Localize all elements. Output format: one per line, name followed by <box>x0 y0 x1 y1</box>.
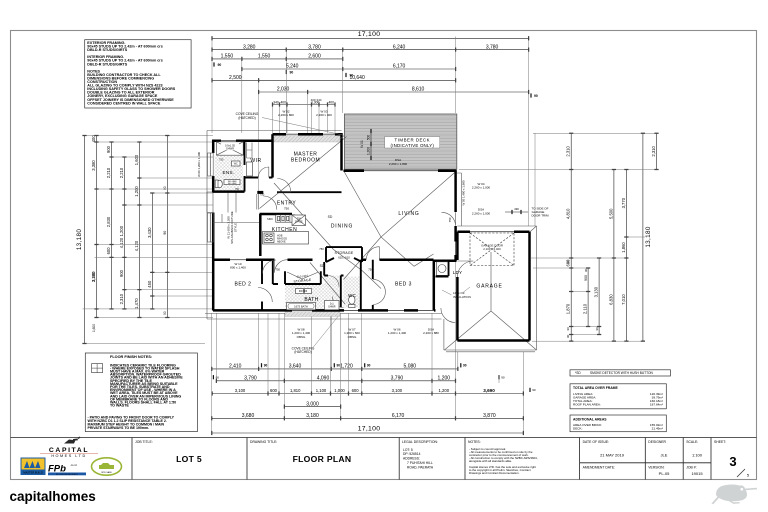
svg-text:750: 750 <box>219 157 224 161</box>
svg-text:3,380: 3,380 <box>91 160 96 171</box>
svg-text:1,000: 1,000 <box>334 388 345 393</box>
svg-text:TO WASTE: TO WASTE <box>110 404 129 408</box>
svg-text:5,500: 5,500 <box>608 208 613 219</box>
dimension row top6 <box>258 87 529 94</box>
svg-text:600 500: 600 500 <box>299 291 308 293</box>
svg-text:400 340: 400 340 <box>311 98 322 102</box>
svg-text:(INDICATIVE ONLY): (INDICATIVE ONLY) <box>391 143 435 148</box>
svg-text:3,790: 3,790 <box>391 376 404 382</box>
framing notes text <box>87 41 175 105</box>
svg-text:13,180: 13,180 <box>645 226 652 247</box>
svg-text:8,610: 8,610 <box>412 87 425 93</box>
svg-text:3,100: 3,100 <box>392 388 403 393</box>
svg-text:400: 400 <box>328 100 334 104</box>
svg-text:90: 90 <box>566 327 570 331</box>
svg-text:600: 600 <box>106 247 111 255</box>
door arc bed2 <box>263 260 277 274</box>
svg-text:PL-05: PL-05 <box>659 471 670 476</box>
svg-text:400: 400 <box>91 135 96 143</box>
wall living top (deck sliders) <box>344 169 457 172</box>
overall left dimension 13,180 <box>76 135 87 344</box>
490 to side of garage door trim <box>505 210 528 214</box>
svg-text:3,780: 3,780 <box>486 44 499 50</box>
exterior wall: master bedroom top (windows W02 W03) <box>273 133 343 136</box>
svg-text:LEGAL DESCRIPTION:: LEGAL DESCRIPTION: <box>402 440 438 444</box>
svg-text:FLOOR FINISH NOTES:: FLOOR FINISH NOTES: <box>110 355 152 359</box>
deck small vertical dim <box>366 129 371 160</box>
wall ens/wir divider <box>244 141 246 192</box>
svg-text:BEDROOM: BEDROOM <box>291 157 320 163</box>
svg-text:2,260 x 880: 2,260 x 880 <box>423 331 439 335</box>
svg-text:DECK:: DECK: <box>573 427 583 431</box>
svg-text:DRAWING TITLE:: DRAWING TITLE: <box>250 440 277 444</box>
svg-text:FLOOR PRIDE BUILD: FLOOR PRIDE BUILD <box>56 474 78 476</box>
svg-text:900: 900 <box>584 275 588 281</box>
svg-text:6,830: 6,830 <box>608 294 613 305</box>
svg-text:3,790: 3,790 <box>244 376 257 382</box>
svg-text:900: 900 <box>119 269 124 277</box>
garage roof lines <box>444 226 536 350</box>
svg-text:600: 600 <box>270 388 278 393</box>
svg-text:NOTES:: NOTES: <box>468 440 481 444</box>
svg-text:DBLD-R STUDS/GIRTS: DBLD-R STUDS/GIRTS <box>87 62 127 66</box>
svg-text:1675 BATH: 1675 BATH <box>294 305 308 309</box>
wall wir bottom <box>245 177 273 179</box>
svg-text:ROOF PLAN AREA:: ROOF PLAN AREA: <box>573 402 601 406</box>
svg-text:DBLD-R STUDS/GIRTS: DBLD-R STUDS/GIRTS <box>87 48 127 52</box>
title block frame <box>11 437 757 439</box>
roof hip and valley lines <box>260 137 458 305</box>
svg-text:3,640: 3,640 <box>289 364 302 370</box>
svg-text:BED 3: BED 3 <box>395 281 412 287</box>
svg-text:2,310: 2,310 <box>119 293 124 304</box>
svg-text:5,080: 5,080 <box>404 364 417 370</box>
svg-text:1,600: 1,600 <box>134 154 139 165</box>
svg-text:FLOOR PLAN: FLOOR PLAN <box>293 454 352 464</box>
svg-text:90: 90 <box>501 376 505 380</box>
svg-text:5,240: 5,240 <box>286 64 299 70</box>
svg-text:21 MAY 2019: 21 MAY 2019 <box>600 452 625 457</box>
dimension column left3 <box>106 141 114 309</box>
svg-text:ROAD, PAERATA: ROAD, PAERATA <box>407 465 434 469</box>
svg-text:90: 90 <box>290 71 294 75</box>
door arc bed2 east wall <box>258 288 272 303</box>
svg-text:1,100: 1,100 <box>316 388 327 393</box>
svg-text:*SD: *SD <box>575 371 581 375</box>
kitchen island bench <box>263 232 309 245</box>
svg-text:4,090: 4,090 <box>317 376 330 382</box>
svg-text:SPACE: SPACE <box>295 220 303 223</box>
svg-text:2,260 x 1,000: 2,260 x 1,000 <box>472 211 491 215</box>
wall living east <box>454 171 457 261</box>
svg-text:(HATCHED): (HATCHED) <box>294 350 311 354</box>
wall bed3 west <box>372 260 374 311</box>
dimension row top3 <box>211 54 343 61</box>
svg-text:LDY: LDY <box>453 270 463 275</box>
dimension row bot4 <box>284 401 341 408</box>
door arc wardrobe bed3 <box>373 279 386 304</box>
svg-text:90: 90 <box>566 334 570 338</box>
svg-text:3,870: 3,870 <box>483 413 496 419</box>
dimension column left4 <box>119 156 127 309</box>
svg-text:DESIGNER: DESIGNER <box>648 440 666 444</box>
svg-text:90: 90 <box>337 364 341 368</box>
svg-text:BED 2: BED 2 <box>235 281 252 287</box>
svg-text:LIVING: LIVING <box>398 211 419 217</box>
ens shower <box>216 142 243 155</box>
svg-text:capitalhomes: capitalhomes <box>10 489 96 504</box>
wall bath/wc area <box>324 260 361 311</box>
svg-text:17,100: 17,100 <box>358 426 381 433</box>
svg-text:90: 90 <box>163 231 167 235</box>
overall top dimension 17,100 <box>211 31 529 41</box>
svg-text:WC: WC <box>348 293 357 298</box>
dimension row top4 <box>241 64 456 71</box>
svg-text:SD: SD <box>328 215 333 219</box>
svg-text:.co.nz: .co.nz <box>70 464 78 467</box>
svg-text:750: 750 <box>448 217 452 222</box>
cove ceiling hatch master bedroom <box>274 136 340 143</box>
svg-text:3,180: 3,180 <box>306 413 319 419</box>
svg-text:750: 750 <box>284 207 289 211</box>
svg-text:1,470: 1,470 <box>134 298 139 309</box>
svg-text:4,810: 4,810 <box>566 208 571 219</box>
svg-text:WIR: WIR <box>250 158 261 164</box>
svg-text:21.49m²: 21.49m² <box>652 427 663 431</box>
svg-text:OBSG: OBSG <box>297 335 306 339</box>
overall bottom dimension 17,100 <box>211 426 524 436</box>
svg-text:1,870: 1,870 <box>566 303 571 314</box>
svg-text:3,690: 3,690 <box>483 388 495 393</box>
svg-text:90: 90 <box>534 94 538 98</box>
ens label boxes <box>224 180 240 185</box>
svg-text:WC: WC <box>234 163 238 166</box>
svg-text:500: 500 <box>366 135 370 141</box>
wing top wall (bed2/hall) <box>213 258 313 261</box>
svg-text:SITE SAFE: SITE SAFE <box>101 471 112 474</box>
svg-text:2,100 x 2,400: 2,100 x 2,400 <box>483 247 501 251</box>
svg-text:DOOR TRIM: DOOR TRIM <box>531 214 549 218</box>
svg-text:GARAGE: GARAGE <box>476 284 502 290</box>
svg-text:610 | 610: 610 | 610 <box>338 256 350 260</box>
svg-text:Drawings and Contract Document: Drawings and Contract Documentation. <box>469 471 520 475</box>
svg-text:alongside with all standards a: alongside with all standards alike. <box>469 459 512 463</box>
exterior wall: wing bottom (windows W08 W07 W06 DSA) <box>213 309 436 312</box>
timber deck label <box>385 137 440 148</box>
svg-text:90: 90 <box>595 327 599 331</box>
dimension column right5 <box>621 169 629 342</box>
exterior wall: west (left) <box>212 140 215 311</box>
svg-text:2,210: 2,210 <box>119 167 124 178</box>
door arc ldy exterior <box>441 308 456 323</box>
svg-text:ABOVE: ABOVE <box>277 241 286 244</box>
svg-text:1,300: 1,300 <box>366 147 370 155</box>
framing notes box <box>85 40 191 108</box>
dimension row top2 <box>211 44 529 51</box>
svg-text:DP: 526514: DP: 526514 <box>403 452 421 456</box>
svg-text:6,240: 6,240 <box>393 44 406 50</box>
svg-text:187.64m²: 187.64m² <box>650 402 663 406</box>
svg-text:SD: SD <box>320 264 325 268</box>
svg-text:17,100: 17,100 <box>358 31 381 38</box>
door arc master <box>277 179 291 193</box>
svg-text:90: 90 <box>532 388 536 392</box>
svg-text:3,180: 3,180 <box>91 271 96 282</box>
svg-text:900 VAN: 900 VAN <box>228 182 237 185</box>
svg-text:90: 90 <box>367 364 371 368</box>
svg-text:DINING: DINING <box>331 224 353 230</box>
fpb logo <box>48 464 86 476</box>
svg-text:1,200 x 1,400: 1,200 x 1,400 <box>388 331 407 335</box>
svg-text:1,600: 1,600 <box>92 324 96 332</box>
wall bed2 east <box>261 260 263 311</box>
svg-text:DATE OF ISSUE:: DATE OF ISSUE: <box>583 440 610 444</box>
svg-text:400: 400 <box>280 100 286 104</box>
wc toilet <box>349 296 355 304</box>
svg-text:800 x 1,400: 800 x 1,400 <box>230 265 246 269</box>
entry door frame <box>257 194 259 210</box>
svg-text:SHWR: SHWR <box>226 147 234 151</box>
svg-text:W 09 1,200 x 1,400: W 09 1,200 x 1,400 <box>197 152 201 177</box>
svg-text:CONSIDERED CENTRED IN WALL SPA: CONSIDERED CENTRED IN WALL SPACE <box>87 101 161 105</box>
svg-text:AMENDMENT DATE:: AMENDMENT DATE: <box>583 465 616 469</box>
kiwi bird silhouette <box>712 485 758 505</box>
dimension row top5 <box>211 75 456 82</box>
dimension column left2 <box>91 135 99 318</box>
svg-text:MASTER BUILD: MASTER BUILD <box>23 470 42 474</box>
svg-text:3,100: 3,100 <box>235 388 246 393</box>
svg-text:3,130: 3,130 <box>594 286 599 297</box>
svg-text:2,210: 2,210 <box>106 167 111 178</box>
svg-text:340: 340 <box>273 100 279 104</box>
svg-text:STORAGE: STORAGE <box>335 251 354 255</box>
svg-text:W 01: W 01 <box>360 140 364 148</box>
svg-text:JOB #:: JOB #: <box>686 465 696 469</box>
svg-text:LOT 5: LOT 5 <box>176 454 202 464</box>
svg-text:900: 900 <box>106 145 111 153</box>
dimension column right6 <box>651 133 659 170</box>
svg-text:SHEET:: SHEET: <box>714 440 726 444</box>
svg-text:90: 90 <box>566 260 570 264</box>
capital homes logo <box>40 437 98 458</box>
svg-text:ADDRESS:: ADDRESS: <box>403 457 420 461</box>
svg-text:BATH: BATH <box>304 297 318 303</box>
door arc hall-bath <box>328 276 344 308</box>
door arc entry <box>264 196 277 210</box>
wir shelves <box>247 143 253 159</box>
small 90 offsets top <box>213 62 353 77</box>
dimension column left5 <box>134 141 142 318</box>
dimension column left7 <box>163 135 170 318</box>
svg-text:750: 750 <box>235 188 240 191</box>
svg-text:SCALE:: SCALE: <box>686 440 698 444</box>
svg-text:SINK: SINK <box>267 217 273 221</box>
party wall house/garage <box>433 260 436 311</box>
svg-text:750: 750 <box>276 268 281 272</box>
svg-text:KITCHEN: KITCHEN <box>272 227 297 233</box>
eaves outline main house <box>205 131 537 352</box>
svg-text:2,260 x 1,800: 2,260 x 1,800 <box>389 162 408 166</box>
svg-text:ENS.: ENS. <box>223 170 235 175</box>
total area over frame box <box>570 384 666 409</box>
svg-text:750: 750 <box>260 193 265 197</box>
svg-text:2,260 x 1,000: 2,260 x 1,000 <box>472 186 491 190</box>
left witness lines <box>83 136 214 344</box>
kitchen tall unit <box>292 215 306 226</box>
svg-text:4,120: 4,120 <box>119 237 124 248</box>
floor finish notes text <box>88 355 184 430</box>
svg-text:6,170: 6,170 <box>392 413 405 419</box>
svg-text:3: 3 <box>729 454 736 469</box>
wall master right <box>340 134 343 170</box>
dimension column right4 <box>608 169 616 342</box>
svg-text:2,260 x 800: 2,260 x 800 <box>278 113 294 117</box>
svg-text:2,830: 2,830 <box>106 216 111 227</box>
svg-text:SHWR: SHWR <box>328 305 336 308</box>
wall ens bottom <box>213 190 245 193</box>
svg-text:7 PUHITAHI HILL: 7 PUHITAHI HILL <box>407 461 433 465</box>
top witness lines <box>212 37 529 227</box>
wc tiled floor <box>344 277 361 308</box>
dimension column right3 <box>594 257 602 335</box>
svg-text:OBSG: OBSG <box>348 335 357 339</box>
svg-text:7,010: 7,010 <box>621 294 626 305</box>
dimension column right2 <box>583 267 591 327</box>
svg-text:3,770: 3,770 <box>621 197 626 208</box>
wall entry/kitchen divider <box>259 214 262 256</box>
svg-text:10,640: 10,640 <box>349 75 365 81</box>
door arc bed3 <box>366 247 379 260</box>
svg-text:JOB TITLE:: JOB TITLE: <box>135 440 153 444</box>
right witness lines <box>459 133 659 341</box>
svg-text:1,200: 1,200 <box>439 388 450 393</box>
additional areas box <box>570 415 666 432</box>
svg-text:600: 600 <box>352 388 360 393</box>
svg-text:INSULATION: INSULATION <box>453 295 471 299</box>
svg-text:1,550: 1,550 <box>221 54 234 60</box>
door arc living-east <box>442 212 456 226</box>
bath vanity <box>296 289 304 294</box>
svg-text:3,780: 3,780 <box>308 44 321 50</box>
svg-text:2,500: 2,500 <box>229 75 242 81</box>
floor finish notes box <box>85 353 197 432</box>
svg-text:JLE: JLE <box>661 452 668 457</box>
wall master bottom <box>277 191 342 193</box>
ldy tub <box>436 262 448 276</box>
svg-text:(HATCHED): (HATCHED) <box>238 116 255 120</box>
wall wir/master divider <box>271 134 274 177</box>
entry door post <box>257 191 263 194</box>
kitchen rear bench line <box>213 214 259 223</box>
storage1 box (dining) <box>326 247 362 262</box>
svg-text:1,810: 1,810 <box>290 388 301 393</box>
dimension row bot2 <box>216 376 456 383</box>
svg-text:2,260 x 400: 2,260 x 400 <box>316 113 332 117</box>
timber deck hatched area <box>344 114 456 169</box>
green oval logo <box>92 458 122 475</box>
garage walls <box>457 232 529 341</box>
bath lobby tiles <box>325 276 340 285</box>
dimension column left6 <box>147 192 155 309</box>
svg-text:3,000: 3,000 <box>306 401 319 407</box>
dimension row bot1 <box>211 364 458 371</box>
svg-text:19015: 19015 <box>691 471 703 476</box>
dimension row bot5 <box>211 413 524 420</box>
svg-text:STYLE: STYLE <box>234 223 238 232</box>
svg-text:1,550: 1,550 <box>258 54 271 60</box>
porch recess outline <box>207 192 236 213</box>
hob <box>264 233 274 243</box>
bath shower <box>325 301 340 310</box>
svg-text:2,600: 2,600 <box>308 54 321 60</box>
svg-text:3,430: 3,430 <box>147 227 152 238</box>
svg-text:90: 90 <box>218 63 222 67</box>
door arc wir <box>258 167 269 178</box>
svg-text:1,200: 1,200 <box>134 186 139 197</box>
door arc garage <box>457 261 473 277</box>
svg-text:450: 450 <box>147 280 152 288</box>
exterior wall: ens/wir top <box>213 139 273 142</box>
dimension row bot3 <box>211 388 456 395</box>
svg-text:750: 750 <box>368 268 373 272</box>
svg-text:W 05 1,480 x 1,880: W 05 1,480 x 1,880 <box>462 180 466 205</box>
ldy nook walls <box>436 261 449 277</box>
svg-text:90: 90 <box>264 364 268 368</box>
smoke detector legend box <box>570 370 670 376</box>
wall kitchen top <box>260 213 293 216</box>
garage door dashed <box>470 233 514 266</box>
master builders logo <box>21 458 46 476</box>
ens window bay W09 <box>208 153 214 176</box>
svg-text:4,120: 4,120 <box>134 240 139 251</box>
svg-text:2,030: 2,030 <box>277 87 290 93</box>
door arc porch entry leaf <box>275 260 288 273</box>
svg-text:2,410: 2,410 <box>229 364 242 370</box>
dimension column right1 <box>566 133 574 342</box>
svg-text:PRIVATE STAIRWAYS TO BE 190mm.: PRIVATE STAIRWAYS TO BE 190mm. <box>88 426 150 430</box>
svg-text:90: 90 <box>163 311 167 315</box>
kitchen window bay W11 <box>208 213 214 242</box>
svg-text:1:100: 1:100 <box>692 452 703 457</box>
storage2 walls (hall) <box>273 271 321 284</box>
svg-text:90: 90 <box>584 268 588 272</box>
wing top wall (bed3/ldy) <box>362 260 457 261</box>
svg-text:1,720: 1,720 <box>340 364 353 370</box>
bath tub <box>287 303 316 310</box>
svg-text:LOT: 5: LOT: 5 <box>403 448 413 452</box>
svg-text:750: 750 <box>319 247 324 251</box>
svg-text:2,310: 2,310 <box>651 145 656 156</box>
svg-text:2,310: 2,310 <box>566 145 571 156</box>
svg-text:2,110: 2,110 <box>583 303 588 314</box>
svg-text:3,680: 3,680 <box>242 413 255 419</box>
bath tiled floor <box>285 284 339 310</box>
wall hall east / bath west <box>272 260 274 284</box>
svg-text:13,180: 13,180 <box>76 229 83 250</box>
ens tiled floor <box>215 156 244 191</box>
svg-text:ADDITIONAL AREAS: ADDITIONAL AREAS <box>573 417 607 421</box>
svg-text:490: 490 <box>514 207 519 211</box>
svg-text:1,200: 1,200 <box>119 225 124 236</box>
svg-text:HOMES LTD: HOMES LTD <box>51 454 86 458</box>
svg-text:3,280: 3,280 <box>243 44 256 50</box>
dimension row top7 <box>272 100 336 106</box>
svg-text:TOTAL AREA OVER FRAME: TOTAL AREA OVER FRAME <box>573 386 619 390</box>
bottom witness lines <box>212 261 524 435</box>
svg-text:6,170: 6,170 <box>393 64 406 70</box>
svg-text:1,860: 1,860 <box>621 242 626 253</box>
svg-text:1,200: 1,200 <box>438 376 451 382</box>
